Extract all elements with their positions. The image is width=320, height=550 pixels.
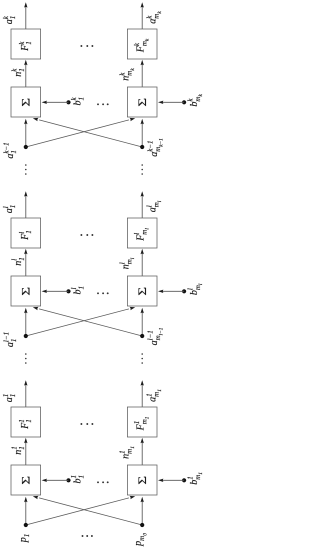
wire: right input into right sum (141, 497, 144, 525)
node label a^l_ml (145, 200, 163, 212)
wire: bias b^l_m into sum (158, 290, 184, 293)
wire: left input cross to right sum (26, 495, 136, 525)
summation box Sigma (right, layer k) (127, 87, 157, 117)
node label a^1_m1 (145, 389, 163, 402)
input label a^k-1_1 (3, 142, 18, 158)
svg-text:1: 1 (10, 150, 18, 154)
transfer function box F^1_m (127, 407, 157, 437)
wire: output a^l_1 arrow (left, layer l) (24, 191, 27, 218)
summation box Sigma (right, layer 1) (127, 465, 157, 495)
svg-text:Σ: Σ (136, 98, 149, 107)
svg-text:1: 1 (9, 16, 17, 20)
input node (left) (24, 523, 28, 527)
bias label b^l_1 (70, 286, 85, 294)
wire: n^k_1 from sum to F (left) (24, 60, 27, 87)
ellipsis between bias and right sum (97, 481, 109, 483)
svg-text:1: 1 (9, 205, 17, 209)
signal label n^l_ml (118, 257, 136, 269)
wire: n^k_m from sum to F (right) (141, 60, 144, 87)
svg-text:Σ: Σ (19, 98, 32, 107)
bias label b^1_1 (70, 475, 85, 483)
wire: bias b^1_1 into sum (42, 479, 69, 482)
wire: output a^k_m arrow (right, layer k) (141, 2, 144, 29)
svg-text:1: 1 (23, 534, 31, 538)
bias label b^l_ml (187, 283, 205, 295)
ellipsis between transfer boxes (80, 423, 93, 425)
svg-text:Σ: Σ (19, 287, 32, 296)
svg-text:Σ: Σ (136, 287, 149, 296)
wire: output a^1_m arrow (right, layer 1) (141, 380, 144, 407)
wire: bias b^l_1 into sum (42, 290, 69, 293)
summation box Sigma (right, layer l) (127, 276, 157, 306)
wire: left input cross to right sum (26, 306, 136, 336)
bias node b^k_m (182, 100, 186, 104)
box glyph F^l_1 (18, 230, 33, 241)
wire: n^l_m from sum to F (right) (141, 249, 144, 276)
signal label n^1_1 (11, 446, 26, 455)
svg-text:1: 1 (145, 416, 151, 419)
svg-text:1: 1 (25, 230, 33, 234)
box glyph F^k_1 (18, 41, 33, 52)
wire: bias b^1_m into sum (158, 479, 184, 482)
svg-text:1: 1 (25, 41, 33, 45)
svg-text:1: 1 (157, 389, 163, 392)
wire: left input cross to right sum (26, 117, 136, 147)
svg-text:1: 1 (77, 97, 85, 101)
svg-text:Σ: Σ (136, 476, 149, 485)
svg-text:1: 1 (18, 68, 26, 72)
wire: right input into right sum (141, 308, 144, 336)
node label a^k_mk (145, 11, 163, 24)
wire: right input cross to left sum (32, 117, 142, 147)
signal label n^1_m1 (118, 446, 136, 459)
wire: n^l_1 from sum to F (left) (24, 249, 27, 276)
wire: left input into left sum (24, 497, 27, 525)
transfer function box F^k_1 (11, 29, 41, 59)
wire: n^1_m from sum to F (right) (141, 438, 144, 465)
transfer function box F^k_m (127, 29, 157, 59)
svg-text:k−1: k−1 (158, 138, 164, 147)
box glyph F^1_1 (18, 419, 33, 430)
bias node b^k_1 (66, 100, 70, 104)
ellipsis between transfer boxes (80, 234, 93, 236)
wire: right input into right sum (141, 119, 144, 147)
input label a^l-1_m (147, 327, 165, 345)
ellipsis between transfer boxes (80, 45, 93, 47)
input node (right) (140, 334, 144, 338)
summation box Sigma (left, layer k) (11, 87, 41, 117)
bias label b^k_mk (187, 94, 205, 107)
input node (right) (140, 523, 144, 527)
wire: right input cross to left sum (32, 306, 142, 336)
ellipsis between bias and right sum (97, 292, 109, 294)
bias node b^1_1 (66, 478, 70, 482)
bias node b^l_m (182, 289, 186, 293)
bias node b^l_1 (66, 289, 70, 293)
svg-text:1: 1 (130, 446, 136, 449)
svg-text:Σ: Σ (19, 476, 32, 485)
input label a^k-1_m (147, 138, 165, 157)
input label p_1 (18, 534, 31, 544)
ellipsis between input nodes p (82, 535, 93, 537)
box glyph F^1_m1 (133, 416, 151, 431)
box glyph F^k_mk (133, 38, 151, 53)
signal label n^k_mk (118, 68, 136, 81)
transfer function box F^1_1 (11, 407, 41, 437)
input node (left) (24, 145, 28, 149)
node label a^l_1 (2, 205, 17, 214)
ellipsis between bias and right sum (97, 103, 109, 105)
svg-text:0: 0 (142, 533, 148, 536)
node label a^1_1 (2, 394, 17, 403)
bias label b^k_1 (70, 96, 85, 105)
wire: bias b^k_1 into sum (42, 101, 69, 104)
summation box Sigma (left, layer 1) (11, 465, 41, 495)
vertical ellipsis below left input (25, 353, 27, 364)
vertical ellipsis below right input (141, 353, 143, 364)
svg-text:1: 1 (77, 475, 85, 479)
wire: bias b^k_m into sum (158, 101, 184, 104)
input label p_m0 (133, 533, 148, 547)
wire: right input cross to left sum (32, 495, 142, 525)
input node (left) (24, 334, 28, 338)
vertical ellipsis below left input (25, 164, 27, 175)
input label a^l-1_1 (3, 332, 18, 347)
svg-text:1: 1 (77, 286, 85, 290)
svg-text:l−1: l−1 (158, 327, 164, 335)
transfer function box F^l_m (127, 218, 157, 248)
node label a^k_1 (2, 15, 17, 24)
svg-text:1: 1 (18, 257, 26, 261)
signal label n^k_1 (11, 68, 26, 77)
box glyph F^l_ml (133, 228, 151, 242)
wire: output a^1_1 arrow (left, layer 1) (24, 380, 27, 407)
bias node b^1_m (182, 478, 186, 482)
wire: output a^k_1 arrow (left, layer k) (24, 2, 27, 29)
wire: output a^l_m arrow (right, layer l) (141, 191, 144, 218)
input node (right) (140, 145, 144, 149)
wire: left input into left sum (24, 308, 27, 336)
signal label n^l_1 (11, 257, 26, 266)
vertical ellipsis below right input (141, 164, 143, 175)
transfer function box F^l_1 (11, 218, 41, 248)
bias label b^1_m1 (187, 472, 205, 485)
svg-text:1: 1 (10, 339, 18, 343)
wire: n^1_1 from sum to F (left) (24, 438, 27, 465)
svg-text:1: 1 (9, 394, 17, 398)
svg-text:1: 1 (198, 472, 204, 475)
svg-text:1: 1 (18, 446, 26, 450)
svg-text:1: 1 (25, 419, 33, 423)
summation box Sigma (left, layer l) (11, 276, 41, 306)
wire: left input into left sum (24, 119, 27, 147)
